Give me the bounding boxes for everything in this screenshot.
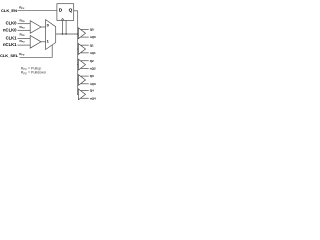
tap dot Q4 xyxy=(77,94,78,95)
wire to FF bottom pin xyxy=(65,20,67,34)
svg-text:CLK_SEL: CLK_SEL xyxy=(0,53,19,58)
wire nQ0 xyxy=(81,36,89,38)
svg-text:Q4: Q4 xyxy=(90,89,94,93)
svg-text:CLK0: CLK0 xyxy=(6,21,18,26)
svg-text:nQ2: nQ2 xyxy=(90,67,96,71)
svg-text:nQ0: nQ0 xyxy=(90,35,96,39)
output buffer Q2 xyxy=(78,59,85,70)
svg-text:nCLK0: nCLK0 xyxy=(3,27,17,32)
wire nQ3 xyxy=(81,83,89,85)
wire Q output to bus xyxy=(74,10,78,12)
tap dot Q2 xyxy=(77,64,78,65)
input buffer A (CLK0) xyxy=(30,21,41,34)
svg-text:1: 1 xyxy=(47,38,50,43)
wire buffer B to mux xyxy=(41,41,46,43)
junction dot bus xyxy=(77,33,79,35)
wire to FF clock xyxy=(62,20,64,34)
wire CLK_EN to D input xyxy=(18,10,57,12)
wire mux output xyxy=(56,33,78,35)
input buffer B (CLK1) xyxy=(30,36,41,49)
svg-text:Q1: Q1 xyxy=(90,43,94,47)
svg-text:RPD: RPD xyxy=(20,18,26,23)
svg-text:RPD: RPD xyxy=(19,52,25,57)
wire CLK_SEL xyxy=(20,45,53,57)
svg-text:Q2: Q2 xyxy=(90,59,94,63)
svg-text:D: D xyxy=(59,8,63,14)
wire Q4 xyxy=(81,90,89,92)
tap dot Q1 xyxy=(77,48,78,49)
wire CLK0 xyxy=(18,23,31,25)
svg-text:nQ3: nQ3 xyxy=(90,82,96,86)
flip-flop U1 box xyxy=(57,4,74,21)
flip-flop clock caret xyxy=(61,18,64,20)
svg-text:nQ4: nQ4 xyxy=(90,96,96,100)
svg-text:Q: Q xyxy=(69,8,73,14)
svg-text:RPD = Pulldown: RPD = Pulldown xyxy=(21,71,46,76)
mux U2 trapezoid xyxy=(46,20,56,50)
output buffer Q1 xyxy=(78,44,85,55)
wire bus vertical xyxy=(77,11,79,95)
svg-text:nQ1: nQ1 xyxy=(90,51,96,55)
output buffer Q3 xyxy=(78,75,85,86)
wire Q0 xyxy=(81,28,89,30)
wire nQ4 xyxy=(81,97,89,99)
wire CLK1 xyxy=(18,38,31,40)
svg-text:RPU: RPU xyxy=(20,39,26,44)
svg-text:RPU: RPU xyxy=(20,25,26,30)
wire Q2 xyxy=(81,60,89,62)
output buffer Q4 xyxy=(78,89,85,100)
wire Q3 xyxy=(81,75,89,77)
svg-text:RPU: RPU xyxy=(19,6,25,11)
svg-text:RPD: RPD xyxy=(20,33,26,38)
svg-text:nCLK1: nCLK1 xyxy=(3,42,17,47)
junction dot pin xyxy=(65,33,67,35)
wire nCLK0 xyxy=(18,29,31,31)
tap dot Q3 xyxy=(77,79,78,80)
wire buffer A to mux xyxy=(41,26,46,28)
wire nCLK1 xyxy=(18,44,31,46)
junction dot clk xyxy=(62,33,64,35)
svg-text:Q3: Q3 xyxy=(90,74,94,78)
wire nQ2 xyxy=(81,67,89,69)
output buffer Q0 xyxy=(78,28,85,39)
wire nQ1 xyxy=(81,52,89,54)
wire Q1 xyxy=(81,44,89,46)
svg-text:CLK_EN: CLK_EN xyxy=(1,8,17,13)
svg-text:CLK1: CLK1 xyxy=(6,36,18,41)
svg-text:0: 0 xyxy=(47,23,50,28)
svg-text:Q0: Q0 xyxy=(90,28,94,32)
